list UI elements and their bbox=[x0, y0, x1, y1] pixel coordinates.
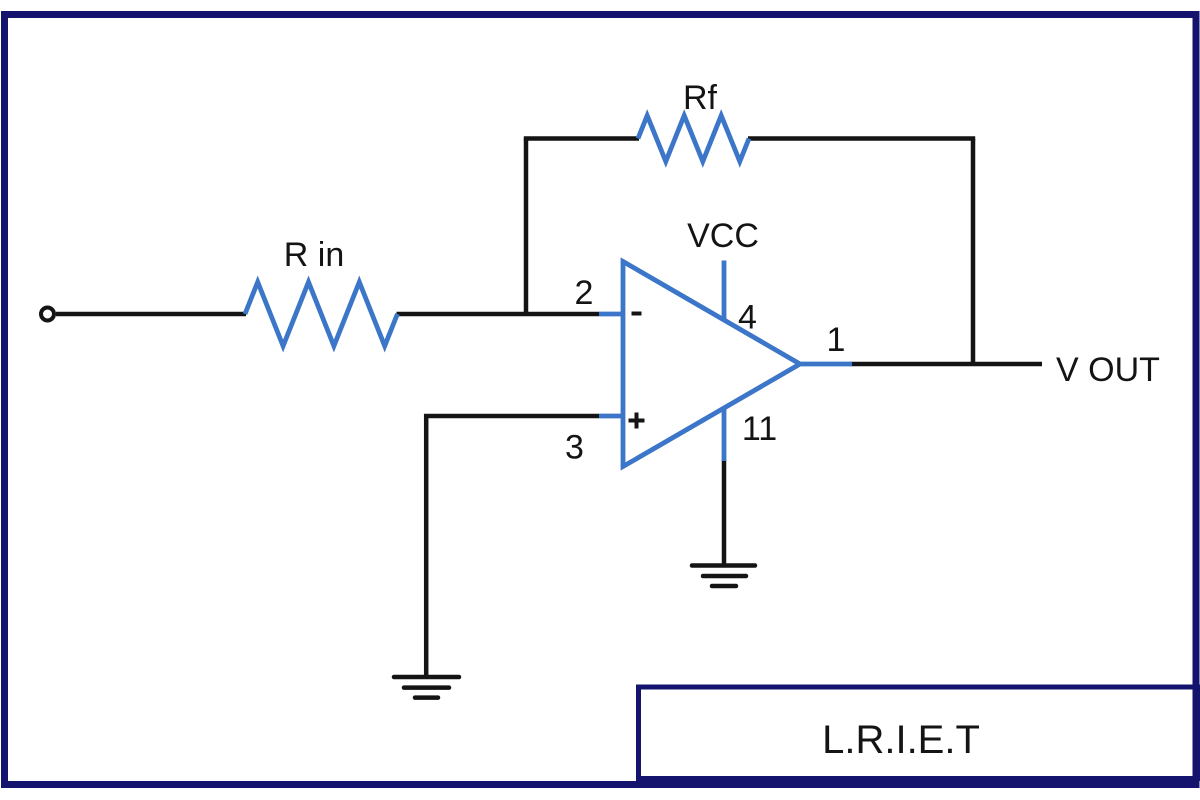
svg-text:L.R.I.E.T: L.R.I.E.T bbox=[822, 718, 980, 762]
svg-text:3: 3 bbox=[565, 429, 584, 467]
svg-text:Rf: Rf bbox=[683, 79, 718, 117]
svg-text:11: 11 bbox=[742, 410, 777, 448]
svg-text:1: 1 bbox=[827, 321, 846, 359]
svg-text:V OUT: V OUT bbox=[1056, 351, 1160, 389]
svg-text:R in: R in bbox=[284, 236, 344, 274]
svg-text:4: 4 bbox=[738, 299, 757, 337]
svg-text:2: 2 bbox=[575, 274, 594, 312]
svg-text:VCC: VCC bbox=[687, 217, 759, 255]
